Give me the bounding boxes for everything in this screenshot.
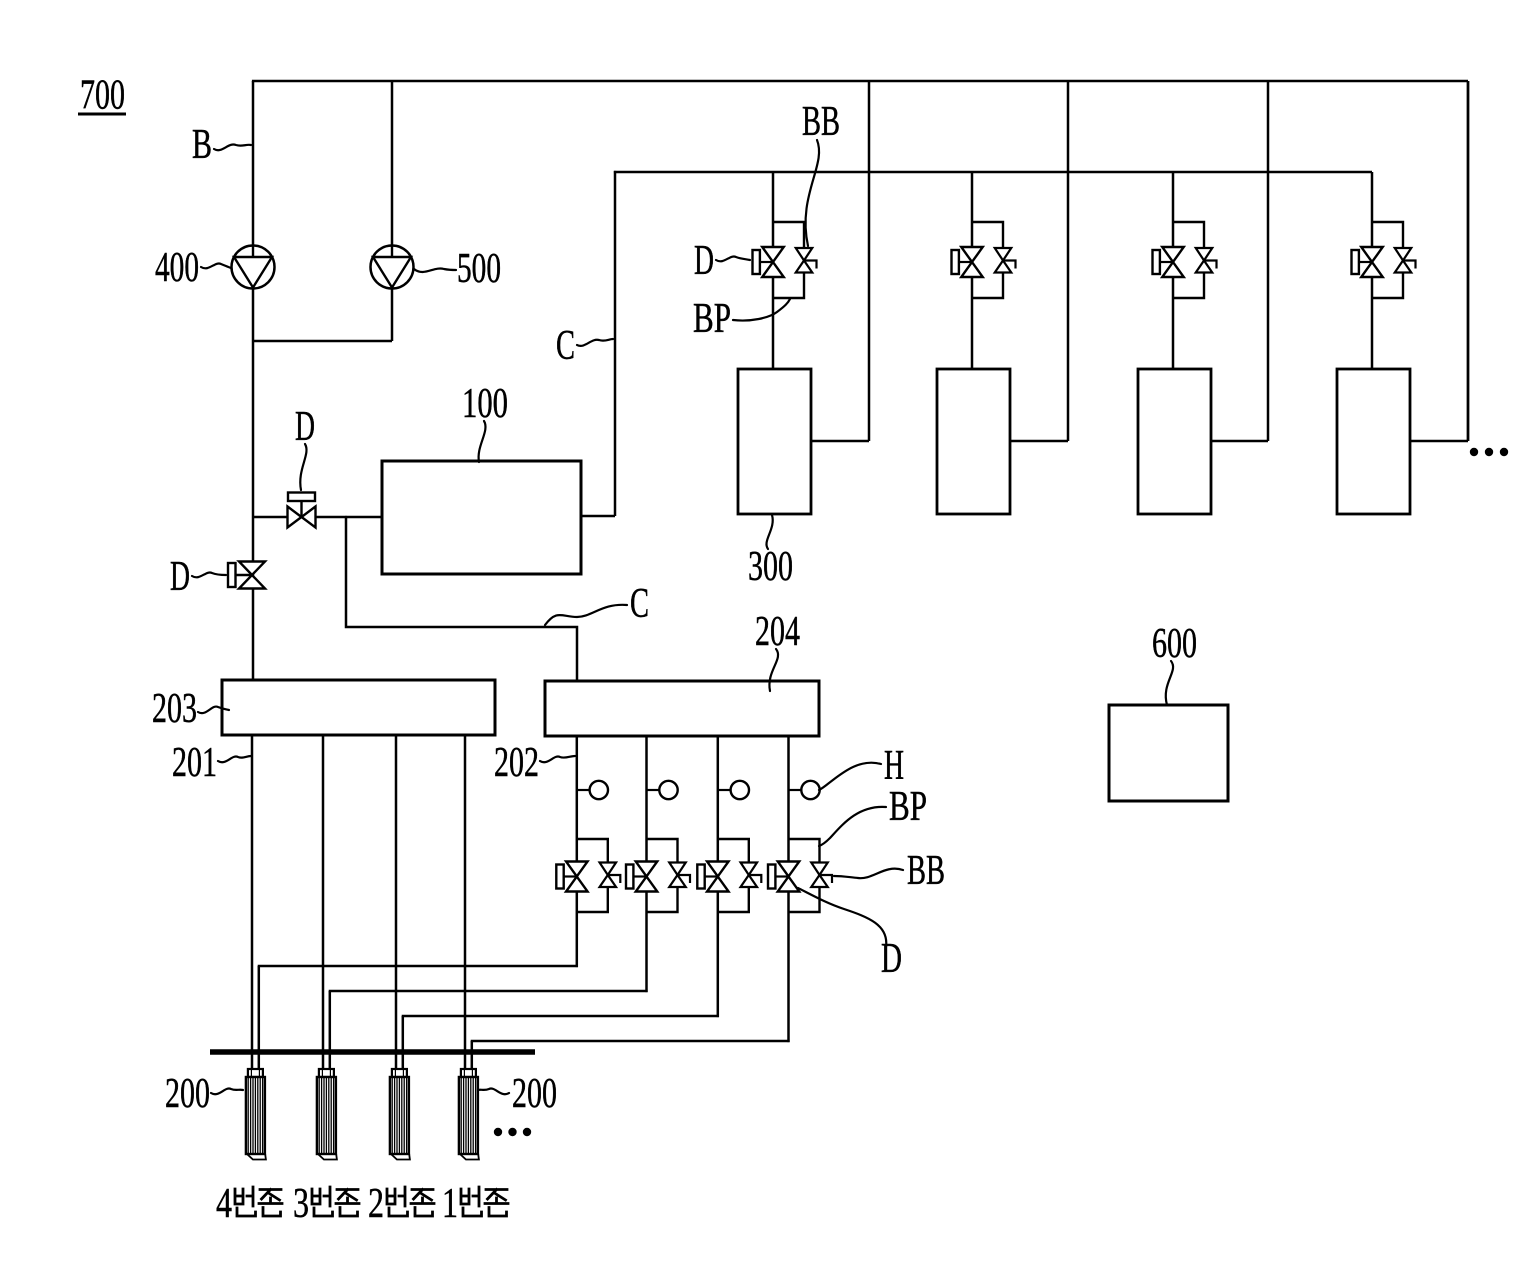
- valve BB (bypass, return branch 4): [811, 863, 832, 888]
- leader D gate valve: [300, 444, 306, 490]
- svg-text:BB: BB: [802, 99, 840, 145]
- valve D (return branch 4): [768, 862, 799, 892]
- return manifold 204: [545, 681, 819, 736]
- wire: return branch 2 vertical (202): [645, 736, 648, 992]
- wire: supply pipe zone 4 (201): [251, 735, 254, 1070]
- leader H: [819, 763, 881, 790]
- wire: return run zone 1: [258, 965, 578, 968]
- svg-text:201: 201: [172, 740, 217, 786]
- svg-text:4: 4: [216, 1181, 232, 1227]
- wire: branch 4 right drop: [1467, 81, 1470, 441]
- wire: return branch 4 vertical (202): [787, 736, 790, 1042]
- wire: return run zone 2: [329, 990, 648, 993]
- wire: branch 1 valve line: [772, 172, 775, 369]
- valve BB (bypass, return branch 2): [669, 863, 690, 888]
- ground heat exchanger 200 (borehole 1): [246, 1069, 266, 1160]
- wire: heat exchanger to C riser: [581, 515, 615, 518]
- zone label 1번존: [442, 1181, 508, 1227]
- svg-text:D: D: [694, 238, 714, 284]
- svg-text:500: 500: [457, 246, 501, 292]
- wire: return branch 3 vertical (202): [717, 736, 720, 1017]
- svg-text:1: 1: [442, 1181, 458, 1227]
- zone label 2번존: [368, 1181, 434, 1227]
- ground heat exchanger 200 (borehole 4): [459, 1069, 479, 1160]
- svg-text:BB: BB: [907, 848, 945, 894]
- svg-text:600: 600: [1152, 621, 1197, 667]
- leader D top: [716, 256, 750, 261]
- svg-text:B: B: [192, 122, 212, 168]
- pump 400: [232, 246, 275, 289]
- svg-text:200: 200: [165, 1071, 210, 1117]
- leader 500: [414, 268, 456, 272]
- valve D (indoor branch 1): [753, 247, 784, 277]
- leader C riser: [577, 339, 613, 346]
- bypass loop BP (return branch 4): [789, 839, 820, 912]
- leader 300: [766, 515, 772, 549]
- wire: return run zone 4: [471, 1040, 790, 1043]
- leader C return: [545, 605, 627, 625]
- leader 202: [540, 756, 575, 762]
- valve D (return branch 2): [626, 862, 657, 892]
- bypass loop BP (return branch 3): [718, 839, 749, 912]
- ground heat exchanger 200 (borehole 3): [390, 1069, 410, 1160]
- valve D (return branch 3): [697, 862, 728, 892]
- svg-text:400: 400: [155, 245, 199, 291]
- leader 204: [769, 649, 778, 691]
- valve D (indoor branch 2): [952, 247, 983, 277]
- wire: pump loop bottom connector: [253, 340, 392, 343]
- wire: branch 3 box-to-drop connector: [1211, 440, 1268, 443]
- wire: branch 4 box-to-drop connector: [1410, 440, 1468, 443]
- wire: supply pipe zone 3 (201): [322, 735, 325, 1070]
- valve BB (bypass, indoor branch 4): [1395, 248, 1416, 273]
- leader 100: [479, 421, 486, 462]
- ground surface line: [210, 1049, 535, 1055]
- wire: branch 3 right drop: [1267, 81, 1270, 441]
- svg-text:204: 204: [755, 609, 800, 655]
- leader 201: [218, 756, 251, 762]
- underline of 700: [78, 113, 126, 116]
- flow sensor H (branch 1): [577, 781, 608, 799]
- valve BB (bypass, return branch 3): [741, 863, 762, 888]
- valve D (gate valve with cap, on B-to-100 pipe): [288, 493, 316, 528]
- wire: pump-500 branch vertical: [391, 81, 394, 341]
- supply manifold 203: [222, 680, 495, 735]
- ground heat exchanger 200 (borehole 2): [317, 1069, 337, 1160]
- svg-text:300: 300: [748, 544, 793, 590]
- flow sensor H (branch 3): [718, 781, 749, 799]
- leader BB top: [806, 140, 820, 246]
- wire: rightmost drop from header: [1467, 81, 1470, 441]
- ellipsis dots (more indoor units): [1470, 448, 1508, 456]
- svg-text:100: 100: [462, 381, 508, 427]
- wire: C riser vertical: [614, 171, 617, 516]
- valve D (return branch 1): [556, 862, 587, 892]
- controller 600: [1109, 705, 1228, 801]
- valve BB (bypass, indoor branch 1): [796, 248, 817, 273]
- svg-text:BP: BP: [693, 296, 731, 342]
- zone label 4번존: [216, 1181, 282, 1227]
- valve BB (bypass, indoor branch 3): [1196, 248, 1217, 273]
- svg-text:200: 200: [512, 1071, 557, 1117]
- bypass loop BP (indoor branch 3): [1173, 222, 1204, 298]
- flow sensor H (branch 2): [647, 781, 678, 799]
- leader 400: [201, 263, 231, 268]
- svg-text:2: 2: [368, 1181, 384, 1227]
- wire: branch 3 valve line: [1172, 172, 1175, 369]
- leader BP bottom: [819, 807, 886, 846]
- ellipsis dots (more boreholes): [494, 1128, 531, 1136]
- zone label 3번존: [293, 1181, 359, 1227]
- wire: return run zone 3: [402, 1015, 719, 1018]
- flow sensor H (branch 4): [789, 781, 820, 799]
- svg-text:700: 700: [80, 73, 125, 119]
- svg-text:3: 3: [293, 1181, 309, 1227]
- leader 200 left: [211, 1089, 243, 1095]
- indoor unit 300 (branch 1): [738, 369, 811, 514]
- wire: return drop to borehole zone 3: [402, 1016, 405, 1070]
- bypass loop BP (indoor branch 1): [773, 222, 804, 298]
- heat exchanger 100: [382, 461, 581, 574]
- wire: branch 2 right drop: [1067, 81, 1070, 441]
- wire: top main header B: [252, 80, 1468, 83]
- leader 203: [198, 707, 229, 714]
- wire: branch 1 box-to-drop connector: [811, 440, 869, 443]
- wire: supply pipe zone 2 (201): [395, 735, 398, 1070]
- wire: branch 2 box-to-drop connector: [1010, 440, 1068, 443]
- leader BP top: [733, 299, 790, 321]
- wire: second header C: [614, 171, 1372, 174]
- wire: C return line to manifold 204: [346, 517, 577, 681]
- valve BB (bypass, indoor branch 2): [995, 248, 1016, 273]
- svg-text:BP: BP: [889, 784, 927, 830]
- wire: B main vertical line: [252, 81, 255, 680]
- indoor unit 300 (branch 4): [1337, 369, 1410, 514]
- valve D (on B main vertical line): [228, 562, 265, 589]
- bypass loop BP (indoor branch 2): [972, 222, 1003, 298]
- svg-text:202: 202: [494, 740, 539, 786]
- valve D (indoor branch 3): [1153, 247, 1184, 277]
- bypass loop BP (return branch 2): [647, 839, 678, 912]
- svg-text:C: C: [630, 581, 649, 627]
- wire: pipe B-line to heat exchanger 100: [253, 516, 382, 519]
- leader 600: [1166, 661, 1173, 705]
- svg-text:203: 203: [152, 686, 197, 732]
- wire: supply pipe zone 1 (201): [464, 735, 467, 1070]
- bypass loop BP (indoor branch 4): [1372, 222, 1403, 298]
- wire: return drop to borehole zone 1: [258, 966, 261, 1070]
- svg-text:D: D: [881, 936, 902, 982]
- wire: return drop to borehole zone 2: [329, 991, 332, 1070]
- indoor unit 300 (branch 3): [1138, 369, 1211, 514]
- wire: branch 1 right drop: [868, 81, 871, 441]
- leader D bottom: [798, 888, 886, 947]
- wire: branch 4 valve line: [1371, 172, 1374, 369]
- indoor unit 300 (branch 2): [937, 369, 1010, 514]
- wire: return branch 1 vertical (202): [576, 736, 579, 967]
- svg-text:D: D: [170, 554, 190, 600]
- leader 200 right: [478, 1089, 509, 1095]
- svg-text:H: H: [884, 743, 904, 789]
- leader B: [214, 145, 251, 151]
- bypass loop BP (return branch 1): [577, 839, 608, 912]
- wire: return drop to borehole zone 4: [471, 1041, 474, 1070]
- svg-text:C: C: [556, 323, 575, 369]
- valve BB (bypass, return branch 1): [600, 863, 621, 888]
- pump 500: [371, 246, 414, 289]
- leader BB bottom: [834, 869, 903, 879]
- valve D (indoor branch 4): [1352, 247, 1383, 277]
- leader D B-line: [192, 572, 226, 577]
- wire: branch 2 valve line: [971, 172, 974, 369]
